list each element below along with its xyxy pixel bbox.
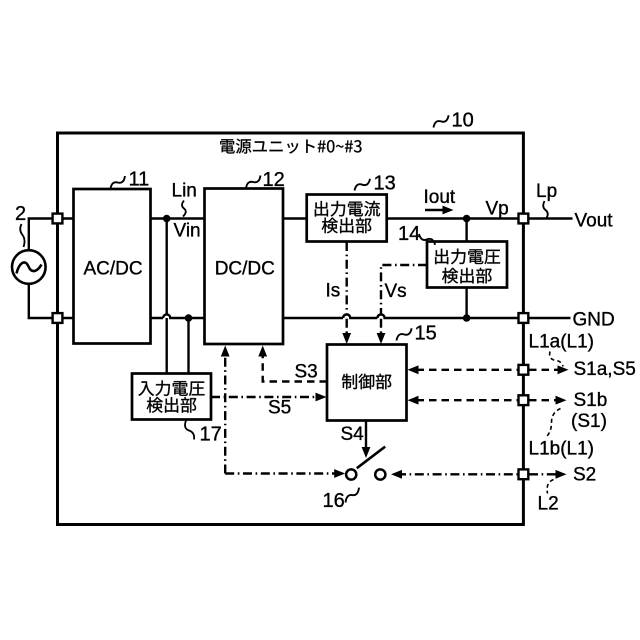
output current detector block 13 bbox=[307, 195, 387, 242]
svg-text:Lp: Lp bbox=[536, 181, 557, 202]
leader squiggle for 12 bbox=[244, 176, 262, 189]
leader squiggle for 2 bbox=[20, 224, 24, 247]
arrow for Iout current direction bbox=[425, 209, 445, 211]
svg-text:Vs: Vs bbox=[385, 281, 407, 302]
external dashed stub S1a with arrow bbox=[529, 369, 559, 371]
leader squiggle for 13 bbox=[353, 179, 372, 191]
leader squiggle for 16 bbox=[343, 487, 361, 503]
input voltage detector block 17 bbox=[132, 374, 211, 420]
sense wire B from bottom-return node down to input-voltage detector 17 bbox=[187, 318, 189, 374]
wire from Vp node down to output-voltage detector 14 bbox=[465, 219, 467, 243]
svg-text:16: 16 bbox=[323, 490, 345, 512]
terminal L1a bbox=[519, 365, 529, 375]
signal Vs: dash-dot from voltage detector 14 down into control unit 15, hop over GND bbox=[377, 265, 427, 318]
label 入力電圧 (box 17 line 1) bbox=[138, 380, 204, 396]
node Vp junction bbox=[463, 215, 471, 223]
svg-text:13: 13 bbox=[374, 173, 396, 195]
label 検出部 (box 14 line 2) bbox=[442, 268, 492, 284]
svg-text:Is: Is bbox=[326, 281, 341, 302]
wire from AC source bottom to terminal and AC/DC input (bottom) bbox=[29, 285, 74, 319]
terminal GND bbox=[519, 313, 529, 323]
svg-text:11: 11 bbox=[129, 169, 150, 191]
wire from AC source top to terminal and AC/DC input (top) bbox=[29, 219, 74, 251]
label 検出部 (box 17 line 2) bbox=[147, 397, 197, 413]
label 出力電流 (box 13 line 1) bbox=[315, 201, 380, 217]
svg-text:15: 15 bbox=[415, 323, 437, 345]
svg-text:GND: GND bbox=[573, 310, 615, 331]
svg-text:L1b(L1): L1b(L1) bbox=[529, 439, 595, 460]
svg-text:L2: L2 bbox=[538, 494, 559, 515]
switch 16 lever bbox=[357, 447, 385, 469]
svg-text:S1b: S1b bbox=[574, 390, 608, 411]
svg-text:14: 14 bbox=[398, 223, 420, 245]
svg-text:DC/DC: DC/DC bbox=[215, 259, 275, 280]
sine wave symbol inside AC source bbox=[17, 262, 42, 273]
svg-text:Vp: Vp bbox=[486, 199, 509, 220]
terminal Vp/Lp bbox=[519, 214, 529, 224]
DC/DC converter block 12 bbox=[205, 189, 284, 345]
dash-dot wire from corner to switch left contact bbox=[225, 472, 336, 474]
svg-text:Vout: Vout bbox=[575, 211, 614, 232]
svg-text:Lin: Lin bbox=[172, 181, 197, 202]
svg-text:S4: S4 bbox=[341, 424, 365, 445]
svg-text:Iout: Iout bbox=[424, 187, 456, 208]
terminal L2 bbox=[519, 469, 529, 479]
wire: DC/DC output to current sensor 13 bbox=[283, 217, 307, 219]
wire: current sensor 13 to Vp output terminal bbox=[387, 217, 524, 219]
leader squiggle for 14 bbox=[418, 234, 437, 245]
leader squiggle for 11 bbox=[109, 176, 127, 189]
external wire GND bbox=[529, 317, 571, 319]
svg-text:L1a(L1): L1a(L1) bbox=[529, 332, 595, 353]
dashed leader from L1a(L1) to S1a line bbox=[550, 352, 563, 367]
svg-text:S5: S5 bbox=[268, 398, 291, 419]
label 出力電圧 (box 14 line 1) bbox=[435, 249, 500, 265]
svg-text:10: 10 bbox=[452, 110, 474, 132]
dashed leader from L2 to S2 line bbox=[547, 480, 553, 494]
node at GND junction below detector 14 bbox=[463, 314, 471, 322]
signal S2 enable path: dash-dot from switch up into DC/DC 12 bbox=[224, 355, 226, 474]
output voltage detector block 14 bbox=[427, 242, 507, 288]
leader squiggle for Lp bbox=[543, 201, 548, 218]
wire from output-voltage detector 14 down to GND wire bbox=[465, 287, 467, 318]
signal S4: from control unit 15 down to switch 16 bbox=[365, 421, 367, 450]
wire GND: DC/DC to GND terminal with hops at Is,Vs crossings bbox=[283, 314, 523, 318]
svg-text:12: 12 bbox=[263, 169, 285, 191]
signal S3: dashed from control unit 15 up into DC/DC 12 bbox=[263, 355, 327, 382]
leader squiggle for Lin bbox=[182, 201, 186, 217]
switch 16 right contact bbox=[375, 469, 385, 479]
switch 16 left contact bbox=[346, 469, 356, 479]
title label 電源ユニット#0~#3 bbox=[220, 139, 361, 154]
signal S1b: dashed from S1b terminal into control unit 15 right edge bbox=[417, 399, 521, 401]
svg-text:Vin: Vin bbox=[174, 221, 201, 242]
external wire Lp to Vout bbox=[529, 217, 573, 219]
signal S1a: dashed from S1a terminal into control unit 15 right edge bbox=[417, 369, 521, 371]
label 制御部 (box 15) bbox=[342, 374, 391, 390]
control unit block 15 bbox=[327, 345, 407, 421]
external dash-dot stub S2 with arrow bbox=[529, 473, 557, 475]
svg-text:17: 17 bbox=[200, 424, 222, 446]
svg-text:2: 2 bbox=[15, 203, 26, 225]
svg-text:S3: S3 bbox=[295, 362, 318, 383]
AC/DC converter block 11 bbox=[74, 189, 151, 344]
signal S5: dash-dot from input voltage detector 17 into control unit 15 bbox=[211, 396, 318, 398]
svg-text:S1a,S5: S1a,S5 bbox=[574, 359, 636, 380]
node at Lin junction bbox=[163, 215, 171, 223]
external dashed stub S1b with arrow bbox=[529, 399, 557, 401]
leader squiggle for 17 bbox=[185, 421, 194, 440]
wire: bottom return AC/DC to DC/DC with hop at x=166.7 bbox=[151, 314, 205, 318]
svg-text:AC/DC: AC/DC bbox=[83, 259, 142, 280]
leader squiggle for 15 bbox=[395, 328, 414, 340]
dashed leader from S1b to L1b(L1) bbox=[546, 409, 561, 438]
power supply unit enclosure box 10 bbox=[58, 133, 524, 525]
node at bottom-return junction bbox=[185, 314, 193, 322]
AC source 2 (sine generator circle) bbox=[12, 250, 46, 284]
left top terminal bbox=[53, 214, 63, 224]
terminal L1b bbox=[519, 395, 529, 405]
leader squiggle for 10 bbox=[432, 115, 451, 127]
label 検出部 (box 13 line 2) bbox=[322, 218, 372, 234]
left bottom terminal bbox=[53, 313, 63, 323]
wire Lin: AC/DC output to DC/DC input (top) bbox=[151, 217, 205, 219]
svg-text:S2: S2 bbox=[573, 465, 596, 486]
svg-text:(S1): (S1) bbox=[571, 411, 607, 432]
sense wire A from node Lin down to input-voltage detector 17 (hop over GND) bbox=[165, 219, 167, 314]
signal S2: dash-dot from S2 terminal to switch right contact bbox=[397, 473, 520, 475]
signal Is: dash-dot from current detector 13 down into control unit 15, hop over GND bbox=[343, 242, 350, 318]
